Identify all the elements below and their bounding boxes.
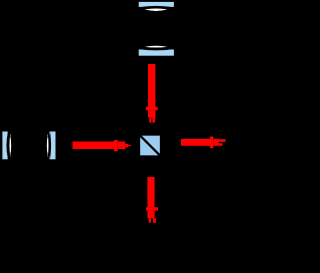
beam arrow A3 (right arm, pointing right) [181,137,226,149]
mirror M4 (left cavity, right mirror) [46,131,56,160]
beam splitter BS [139,135,160,156]
beam arrow A1 (laser input, pointing right) [73,140,131,151]
mirror M1 (top cavity, upper mirror) [138,1,174,11]
beam arrow A4 (output to photodetector, pointing down) [146,177,158,223]
beam arrow A2 (top arm, pointing down) [146,64,158,123]
mirror M2 (top cavity, lower mirror) [138,45,174,57]
mirror M3 (left cavity, left mirror) [2,131,12,160]
